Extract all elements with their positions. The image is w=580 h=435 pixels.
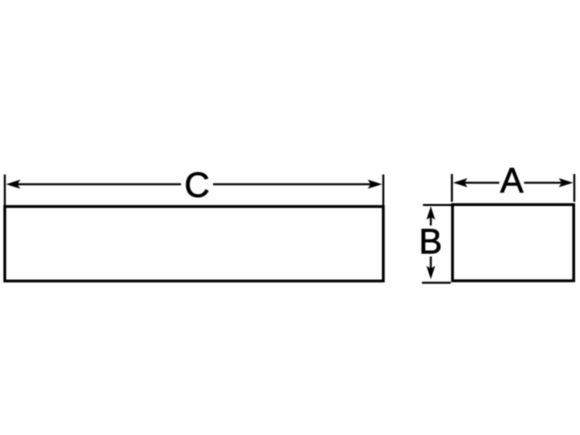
arrowhead B up (426, 206, 435, 220)
svg-text:B: B (419, 223, 442, 262)
arrowhead B down (426, 266, 435, 280)
extension line left of A dimension (451, 174, 453, 202)
bar end view rectangle (453, 205, 574, 281)
arrowhead C left (6, 180, 21, 189)
arrowhead A right (559, 178, 574, 187)
svg-text:A: A (500, 161, 524, 200)
extension line right of C dimension (382, 175, 384, 206)
extension line bottom of B dimension (422, 282, 451, 284)
wire C dimension line right segment (213, 183, 372, 185)
extension line right of A dimension (573, 174, 575, 202)
wire A dimension line left segment (462, 182, 499, 184)
arrowhead A left (453, 178, 468, 187)
wire B dimension line lower segment (430, 257, 432, 271)
bar side view rectangle (5, 207, 384, 282)
extension line top of B dimension (423, 204, 453, 206)
wire A dimension line right segment (524, 182, 564, 184)
extension line left of C dimension (4, 175, 6, 206)
wire B dimension line upper segment (430, 215, 432, 226)
wire C dimension line left segment (16, 183, 181, 185)
svg-text:C: C (184, 166, 209, 205)
arrowhead C right (368, 180, 383, 189)
